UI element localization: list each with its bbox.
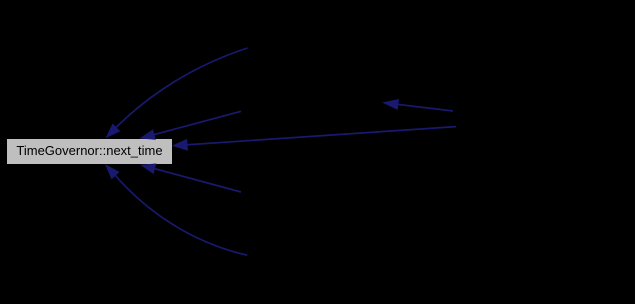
wire E6 short line — [392, 104, 453, 111]
node TimeGovernor::next_time — [7, 139, 173, 165]
svg-text:TimeGovernor::next_time: TimeGovernor::next_time — [16, 143, 162, 158]
wire E5 curve — [110, 169, 248, 255]
arrowhead E4 — [140, 164, 156, 175]
arrowhead E6 — [382, 99, 399, 110]
arrowhead E1 — [106, 124, 121, 139]
wire E2 line — [148, 111, 241, 136]
wire E4 line — [149, 167, 241, 192]
arrowhead E2 — [140, 129, 156, 140]
wire E3 long line — [182, 127, 456, 146]
arrowhead E5 — [105, 164, 120, 179]
wire E1 curve — [110, 48, 248, 134]
arrowhead E3 — [172, 139, 188, 151]
edge: curve from top caller node to TimeGovernor::next_time — [110, 48, 457, 255]
